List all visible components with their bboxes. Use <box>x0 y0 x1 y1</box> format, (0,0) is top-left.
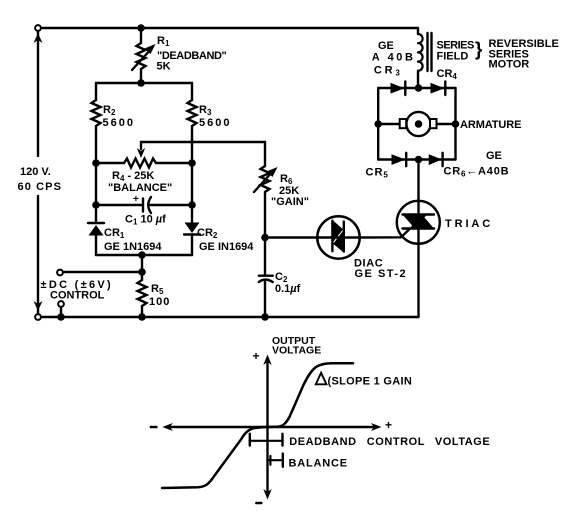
junction C2 top <box>261 234 269 242</box>
wire DC control <box>64 271 142 273</box>
svg-text:BALANCE: BALANCE <box>289 458 348 470</box>
svg-text:0.1µf: 0.1µf <box>275 283 301 295</box>
svg-text:"BALANCE": "BALANCE" <box>108 182 172 194</box>
wire triac bottom to rail <box>417 244 419 318</box>
svg-text:CR6←A40B: CR6←A40B <box>444 166 510 179</box>
label 120V 60CPS <box>18 166 63 193</box>
svg-text:GE: GE <box>378 40 394 52</box>
svg-text:VOLTAGE: VOLTAGE <box>272 345 321 357</box>
wire top rail <box>42 27 418 29</box>
junction box bottom <box>138 251 146 259</box>
svg-text:A 40B: A 40B <box>372 52 416 64</box>
triac <box>397 201 440 244</box>
svg-text:"GAIN": "GAIN" <box>271 196 309 208</box>
svg-text:ARMATURE: ARMATURE <box>460 119 521 131</box>
wire diac left <box>265 236 318 238</box>
node DC terminal lower <box>58 301 64 307</box>
resistor R1 potentiometer <box>140 28 142 43</box>
graph S-curve <box>162 363 353 488</box>
junction R1 top <box>137 24 145 32</box>
label slope gain <box>316 373 412 388</box>
svg-text:GE 1N1694: GE 1N1694 <box>104 241 162 253</box>
svg-text:(SLOPE 1 GAIN: (SLOPE 1 GAIN <box>328 376 413 388</box>
junction bridge right <box>452 120 460 128</box>
svg-text:100: 100 <box>149 296 170 308</box>
junction R4 left <box>92 159 100 167</box>
junction bridge bottom <box>415 156 423 164</box>
junction DC lower rail <box>57 313 65 321</box>
wire box bottom <box>96 254 192 256</box>
diode CR4 <box>431 83 445 94</box>
svg-text:+: + <box>385 418 392 432</box>
svg-text:C1 10 µf: C1 10 µf <box>125 214 166 227</box>
motor armature <box>378 123 400 125</box>
capacitor C1 <box>96 204 143 206</box>
svg-text:CONTROL: CONTROL <box>50 290 105 302</box>
wire R2-R3 top <box>96 83 192 100</box>
wire R4 wiper to R6 <box>141 142 265 166</box>
diode CR6 <box>429 154 442 165</box>
svg-text:FIELD: FIELD <box>437 51 469 63</box>
svg-text:60 CPS: 60 CPS <box>18 181 63 193</box>
svg-text:5600: 5600 <box>103 117 135 129</box>
node AC terminal bottom <box>35 314 41 320</box>
label DC control <box>41 279 114 302</box>
dimension balance <box>268 459 283 461</box>
resistor R5 <box>138 272 147 317</box>
svg-text:5600: 5600 <box>199 117 231 129</box>
wire box right side <box>191 163 193 205</box>
junction R4 right <box>188 159 196 167</box>
junction bridge left <box>374 120 382 128</box>
inductor series field <box>417 28 419 34</box>
junction R1 bottom <box>137 79 145 87</box>
wire left rail upper with up arrow <box>37 32 39 156</box>
svg-text:5K: 5K <box>157 61 171 73</box>
svg-text:}: } <box>475 40 483 61</box>
potentiometer R6 <box>261 166 270 192</box>
wire bottom rail <box>42 316 419 318</box>
wire triac top to bridge <box>417 160 419 202</box>
dimension deadband <box>250 440 283 442</box>
junction bridge top <box>415 84 423 92</box>
svg-text:MOTOR: MOTOR <box>489 59 530 71</box>
junction DC <box>138 268 146 276</box>
diac GE ST-2 <box>317 216 359 258</box>
wire to DC junction <box>141 255 143 272</box>
junction C1 right <box>188 201 196 209</box>
wire box left side <box>95 163 97 205</box>
resistor R2 <box>92 100 101 163</box>
bridge rectangle <box>377 88 379 160</box>
graph vertical axis <box>266 360 268 494</box>
junction R5 bottom <box>138 313 146 321</box>
svg-text:DEADBAND CONTROL VOLTAGE: DEADBAND CONTROL VOLTAGE <box>289 436 490 448</box>
wire diac to triac gate <box>359 229 410 238</box>
svg-text:TRIAC: TRIAC <box>445 218 493 230</box>
svg-text:GE ST-2: GE ST-2 <box>355 268 408 280</box>
resistor R3 <box>188 100 197 163</box>
svg-text:GE IN1694: GE IN1694 <box>199 241 254 253</box>
junction C1 left <box>92 201 100 209</box>
node DC terminal upper <box>57 270 63 276</box>
svg-text:+: + <box>133 194 139 205</box>
diode CR1 <box>95 205 97 223</box>
graph horizontal axis <box>168 426 376 428</box>
diode CR3 <box>391 83 405 94</box>
wire left rail lower with down arrow <box>37 196 39 313</box>
junction C2 bottom <box>261 313 269 321</box>
svg-text:GE: GE <box>486 150 502 162</box>
capacitor C2 <box>264 240 266 276</box>
node AC terminal top <box>35 25 41 31</box>
diode CR5 <box>392 154 406 165</box>
potentiometer R4 <box>96 159 192 168</box>
svg-text:+: + <box>253 349 260 363</box>
svg-text:120 V.: 120 V. <box>20 166 51 178</box>
diode CR2 <box>191 205 193 223</box>
